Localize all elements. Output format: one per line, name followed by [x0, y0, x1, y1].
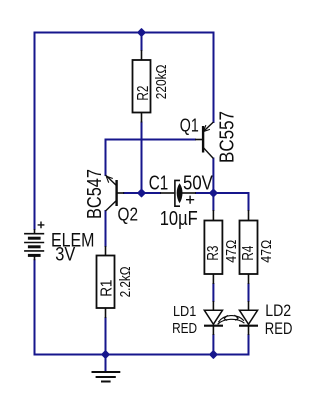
svg-text:R2: R2 [135, 86, 152, 101]
svg-text:50V: 50V [183, 173, 213, 195]
svg-text:RED: RED [265, 319, 293, 338]
svg-text:LD2: LD2 [265, 301, 291, 320]
svg-text:47Ω: 47Ω [259, 240, 275, 263]
svg-text:LD1: LD1 [173, 303, 196, 320]
svg-text:BC557: BC557 [216, 111, 238, 163]
svg-text:BC547: BC547 [84, 169, 106, 219]
svg-text:R1: R1 [98, 280, 115, 297]
svg-text:3V: 3V [55, 245, 75, 266]
svg-text:10µF: 10µF [160, 208, 198, 230]
svg-text:Q1: Q1 [180, 115, 199, 136]
svg-text:47Ω: 47Ω [224, 240, 240, 263]
svg-text:R3: R3 [205, 246, 222, 261]
svg-text:R4: R4 [240, 245, 257, 260]
svg-text:C1: C1 [149, 173, 169, 195]
svg-text:2.2kΩ: 2.2kΩ [117, 266, 134, 297]
svg-text:220kΩ: 220kΩ [153, 65, 170, 100]
svg-text:Q2: Q2 [118, 204, 139, 224]
svg-text:RED: RED [172, 320, 197, 337]
